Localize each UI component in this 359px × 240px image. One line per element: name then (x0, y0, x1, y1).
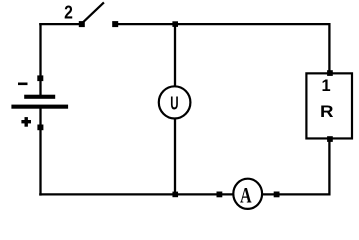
svg-text:2: 2 (64, 1, 73, 23)
ammeter A1 (217, 179, 280, 209)
wire top-left horizontal (battery to switch) (39, 23, 82, 25)
ammeter right terminal square (274, 192, 280, 198)
battery plus label (21, 120, 31, 123)
ammeter left terminal square (217, 192, 223, 198)
wire left vertical lower (battery to bottom wire) (39, 106, 41, 196)
battery bottom terminal square (37, 125, 43, 131)
svg-text:U: U (170, 94, 178, 114)
wire right vertical lower (resistor to bottom wire) (328, 138, 330, 196)
wire bottom horizontal left (to ammeter) (39, 193, 234, 195)
battery minus label (18, 83, 28, 86)
switch S2 (64, 1, 118, 27)
voltmeter U1 (159, 86, 191, 118)
svg-text:R: R (320, 102, 334, 121)
battery top terminal square (37, 75, 43, 81)
wire bottom horizontal right (ammeter to resistor) (262, 193, 331, 195)
wire left vertical upper (top wire to battery) (39, 23, 41, 95)
battery positive plate (long) (11, 105, 68, 109)
node junction bottom (voltmeter branch) (172, 192, 178, 198)
battery negative plate (short) (24, 95, 55, 99)
wire middle vertical upper (top wire to voltmeter) (174, 24, 176, 87)
wire top-right horizontal (switch to resistor) (115, 23, 331, 25)
resistor R (306, 70, 352, 142)
resistor bottom terminal square (327, 136, 333, 142)
battery B1 (11, 75, 68, 130)
svg-text:A: A (240, 184, 252, 208)
wire right vertical upper (top wire to resistor) (328, 23, 330, 74)
svg-text:1: 1 (322, 77, 331, 95)
switch blade (open) (82, 2, 104, 23)
resistor top terminal square (327, 70, 333, 76)
wire middle vertical lower (voltmeter to bottom wire) (174, 119, 176, 195)
node junction top (voltmeter branch) (172, 21, 178, 27)
switch right contact square (112, 21, 118, 27)
switch left contact square (79, 21, 85, 27)
